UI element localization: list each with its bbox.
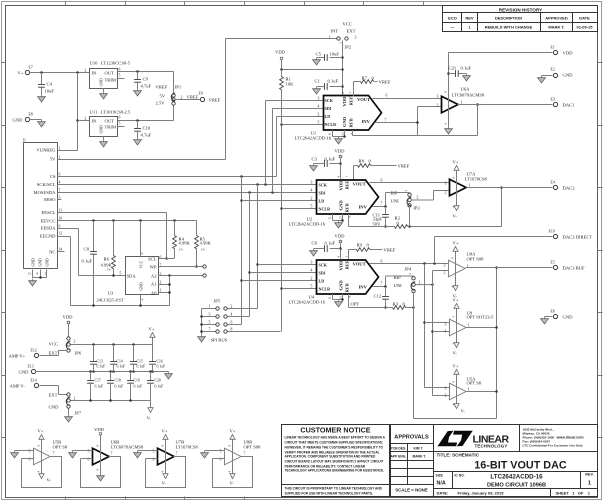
wire V- rail [71, 399, 151, 402]
svg-text:3: 3 [437, 95, 439, 99]
wire EESCL net [58, 213, 168, 260]
wire bus CS [58, 176, 277, 178]
wire U5A output [466, 390, 498, 393]
svg-text:2: 2 [181, 96, 183, 100]
ground below C10 [134, 138, 142, 145]
svg-text:1: 1 [461, 101, 463, 105]
svg-text:V+: V+ [18, 71, 24, 76]
wire U2 GND pins to ground [333, 214, 344, 222]
svg-text:OPT S8: OPT S8 [467, 381, 482, 386]
svg-text:5V: 5V [50, 157, 56, 162]
terminal E14 AMP V- [10, 379, 39, 389]
svg-text:3: 3 [59, 195, 61, 199]
svg-text:LTC2642ACDD-16: LTC2642ACDD-16 [289, 300, 326, 305]
dac U4 LTC2642ACDD-16 [289, 256, 379, 305]
ground at E6 [541, 317, 549, 324]
svg-text:NCLR: NCLR [319, 287, 331, 292]
svg-text:4.7uF: 4.7uF [141, 84, 152, 89]
svg-text:A2: A2 [151, 274, 157, 279]
jumper JP3 [391, 190, 421, 211]
frame tick marks left [2, 63, 6, 438]
ground at U6B input [69, 451, 77, 458]
wire U3 GND stub [139, 295, 143, 307]
ground at E8 [38, 120, 46, 127]
ground at C21 [463, 74, 471, 81]
op-amp U5A OPT S8 [445, 377, 482, 400]
svg-text:GND: GND [100, 125, 104, 133]
svg-text:OPT S8: OPT S8 [53, 445, 68, 450]
ground at C1 [313, 87, 321, 94]
svg-text:SIZE: SIZE [436, 474, 444, 478]
svg-text:12: 12 [341, 132, 345, 136]
wire JP3 pin2 to U7A inv input [411, 191, 449, 201]
svg-text:J1: J1 [23, 139, 26, 143]
svg-text:SUPPLIED FOR USE WITH LINEAR T: SUPPLIED FOR USE WITH LINEAR TECHNOLOGY … [285, 492, 374, 496]
svg-text:INV: INV [359, 205, 368, 210]
svg-text:1: 1 [468, 388, 470, 392]
revision history table [443, 6, 598, 32]
wire inverting column [431, 271, 449, 396]
op-amp U8A OPT S08 [444, 252, 485, 277]
wire U3 SCL stub [159, 258, 175, 260]
svg-text:0.1uF: 0.1uF [134, 385, 143, 389]
wire riser NCLR net to JP5 pin8 [280, 123, 323, 331]
op-amp U8B OPT S08 [205, 429, 262, 488]
svg-text:NC: NC [49, 250, 55, 255]
wire JP5 pin8 MISO [228, 331, 281, 333]
svg-text:VDD: VDD [339, 260, 344, 271]
svg-text:2: 2 [74, 340, 76, 344]
svg-text:14: 14 [59, 248, 63, 252]
ground below U10 [100, 92, 108, 99]
wire U11 OUT [118, 120, 174, 122]
supply V- below U9 [452, 323, 460, 356]
wire bus MOSI/SDA [58, 192, 317, 194]
svg-text:VOUT: VOUT [353, 182, 366, 187]
wire EEGND net [58, 237, 170, 306]
resistor R1 10K [280, 68, 294, 124]
svg-text:SCK: SCK [319, 263, 328, 268]
terminal E6 GND [545, 310, 574, 320]
svg-text:CUSTOMER NOTICE: CUSTOMER NOTICE [300, 426, 370, 435]
svg-text:VOUT: VOUT [353, 262, 366, 267]
svg-text:C14: C14 [117, 360, 123, 364]
svg-text:10: 10 [59, 217, 63, 221]
svg-text:C4: C4 [47, 82, 53, 87]
wire JP2 pin2 down VDD riser [341, 41, 344, 97]
wire U2 RFB feedback line + resistor R2 [349, 214, 502, 228]
node junction C4 tap [40, 71, 43, 74]
svg-text:OUT: OUT [105, 71, 115, 76]
capacitor C5 [316, 52, 343, 61]
svg-text:1: 1 [588, 481, 591, 487]
svg-text:EESDA: EESDA [41, 226, 56, 231]
frame tick marks right [598, 63, 603, 438]
svg-text:V-: V- [461, 409, 466, 414]
svg-text:VREF: VREF [156, 85, 168, 90]
svg-text:APPROVALS: APPROVALS [394, 435, 429, 441]
svg-text:EEVCC: EEVCC [40, 219, 55, 224]
wire JP4 pin2 to inverting column [415, 281, 434, 286]
wire U2 REF riser + resistor R8 [354, 159, 397, 181]
ground at U7B input [134, 451, 142, 458]
dac U2 LTC2642ACDD-16 [289, 176, 379, 227]
svg-text:5: 5 [318, 120, 320, 124]
Linear Technology logo [438, 431, 473, 447]
svg-text:24LC025-I/ST: 24LC025-I/ST [97, 298, 124, 303]
supply V- below U8A [451, 265, 459, 299]
svg-text:DEMO CIRCUIT 1096B: DEMO CIRCUIT 1096B [487, 483, 546, 489]
svg-text:2: 2 [74, 397, 76, 401]
svg-text:CIRCUIT BOARD LAYOUT MAY SIGNI: CIRCUIT BOARD LAYOUT MAY SIGNIFICANTLY A… [285, 460, 384, 464]
wire riser SCK to U4 SCK and JP5 pin2 [228, 183, 317, 308]
svg-text:TRIM: TRIM [105, 125, 116, 130]
svg-text:16-BIT VOUT DAC: 16-BIT VOUT DAC [474, 460, 567, 472]
ground below U11 [100, 140, 108, 147]
wire 5V net to VCC riser [58, 39, 337, 160]
svg-text:7: 7 [209, 328, 211, 332]
wire U4 RFB OPT line + resistor R3 [349, 294, 415, 309]
wire U3 WP line to pad [159, 266, 203, 268]
node junction C10 [136, 119, 139, 122]
svg-text:1: 1 [468, 324, 470, 328]
svg-text:C13: C13 [97, 360, 103, 364]
svg-text:R6: R6 [104, 257, 110, 262]
resistor R5 4.99K [195, 221, 212, 268]
capacitor C16 [149, 345, 165, 372]
svg-text:SDI: SDI [325, 106, 332, 111]
svg-text:REV.: REV. [585, 473, 594, 477]
pad A2 [203, 274, 206, 277]
ground at U8B input [201, 451, 209, 458]
ground below U4 [335, 300, 343, 307]
svg-text:—: — [451, 25, 455, 30]
capacitor C3 [312, 157, 341, 167]
svg-text:IN: IN [92, 119, 98, 124]
wire MISO stub [58, 199, 62, 201]
wire 2.5V riser to JP1 pin3 [173, 105, 175, 121]
wire VDD rail [282, 69, 343, 71]
svg-text:E5: E5 [551, 261, 555, 265]
svg-text:TECHNOLOGY APPLICATIONS ENGINE: TECHNOLOGY APPLICATIONS ENGINEERING FOR … [285, 469, 385, 473]
svg-text:VCC: VCC [49, 342, 58, 347]
svg-text:TRIM: TRIM [105, 78, 116, 83]
wire U4 INV [373, 282, 386, 287]
capacitor C9 [134, 72, 151, 89]
ground below U6A [445, 127, 453, 134]
svg-text:V-: V- [162, 481, 167, 486]
svg-text:V+: V+ [453, 298, 459, 303]
svg-text:LTC6078ACMS8: LTC6078ACMS8 [452, 93, 485, 98]
svg-text:2: 2 [85, 69, 87, 73]
svg-text:VDD: VDD [63, 315, 74, 320]
svg-text:RFB: RFB [349, 118, 354, 127]
svg-text:VDD: VDD [335, 149, 346, 154]
svg-text:4: 4 [318, 104, 320, 108]
svg-text:AMP V-: AMP V- [10, 384, 26, 389]
svg-text:C20: C20 [155, 379, 161, 383]
supply V- below U7A [452, 184, 460, 219]
svg-text:2: 2 [311, 276, 313, 280]
supply V+ above U5A [452, 364, 460, 396]
svg-text:C3: C3 [312, 157, 318, 162]
svg-text:2: 2 [160, 281, 162, 285]
svg-text:V+: V+ [230, 429, 236, 434]
terminal E9 VREF [199, 92, 221, 103]
wire E14 to JP7 pin1 [40, 386, 68, 395]
svg-text:V+: V+ [38, 429, 44, 434]
svg-text:1: 1 [160, 289, 162, 293]
svg-text:DATE: DATE [579, 16, 590, 21]
node junction U11 IN [76, 119, 79, 122]
svg-text:OPT: OPT [351, 302, 360, 307]
op-amp U6A LT6078ACMS8 [437, 87, 485, 125]
svg-text:INV: INV [362, 119, 371, 124]
svg-text:E7: E7 [29, 66, 33, 70]
supply symbol VDD for U2 [335, 149, 346, 179]
svg-text:VDD: VDD [335, 234, 346, 239]
wire U2 NCLR feed [280, 207, 316, 210]
svg-text:HOWEVER, IT REMAINS THE CUSTOM: HOWEVER, IT REMAINS THE CUSTOMER'S RESPO… [285, 446, 384, 450]
svg-text:V+: V+ [453, 160, 459, 165]
jumper JP1 [156, 85, 182, 106]
svg-text:DAC1: DAC1 [563, 103, 576, 108]
jumper JP4 [394, 267, 416, 293]
svg-text:SDA: SDA [127, 274, 137, 279]
svg-text:7: 7 [381, 282, 383, 286]
svg-text:N/A: N/A [437, 481, 446, 487]
svg-text:10K: 10K [286, 82, 295, 87]
svg-text:INT: INT [331, 29, 339, 34]
svg-text:10uF: 10uF [45, 89, 55, 94]
svg-text:OPT S08: OPT S08 [244, 445, 262, 450]
svg-text:0.1uF: 0.1uF [155, 385, 164, 389]
svg-text:EXT: EXT [49, 393, 58, 398]
capacitor C15 [130, 345, 145, 372]
wire JP3 pin3 to INV [384, 193, 409, 208]
svg-text:VDD: VDD [275, 50, 286, 55]
svg-text:C1: C1 [315, 79, 321, 84]
svg-text:LD: LD [319, 279, 325, 284]
svg-text:11: 11 [328, 296, 332, 300]
svg-text:VDD: VDD [94, 427, 105, 432]
svg-text:JP6: JP6 [75, 351, 82, 356]
svg-text:SCK/SCL: SCK/SCL [37, 182, 56, 187]
svg-text:GND: GND [339, 280, 344, 291]
svg-text:LTC2642ACDD-16: LTC2642ACDD-16 [490, 474, 543, 481]
wire U3 A2 line to pad [159, 275, 203, 277]
wire riser CS to U2/U4 LD and JP5 pin6 [228, 175, 317, 324]
node junction C9 [136, 70, 139, 73]
svg-text:VDD: VDD [342, 96, 347, 107]
svg-text:E8: E8 [29, 113, 33, 117]
wire VOUT riser to buffer + inputs [423, 262, 449, 387]
svg-text:UNI: UNI [391, 199, 400, 204]
svg-text:OPT SOT23-5: OPT SOT23-5 [467, 315, 495, 320]
svg-text:SCALE = NONE: SCALE = NONE [395, 488, 428, 493]
ground below C4 [38, 95, 46, 102]
svg-text:EXT: EXT [347, 29, 356, 34]
svg-text:01-09-15: 01-09-15 [576, 25, 593, 30]
wire GND rail [36, 370, 169, 373]
svg-text:1%: 1% [201, 248, 206, 252]
wire JP3 pin1 stub [409, 207, 411, 227]
svg-text:APPLICATION. COMPONENT SUBSTI: APPLICATION. COMPONENT SUBSTITUTION AND … [285, 455, 377, 459]
svg-text:C19: C19 [134, 379, 140, 383]
approvals box [391, 425, 434, 497]
svg-text:E3: E3 [551, 98, 555, 102]
svg-text:E12: E12 [31, 349, 37, 353]
svg-text:3: 3 [445, 387, 447, 391]
svg-text:4: 4 [231, 313, 233, 317]
ground below U6B [97, 474, 105, 481]
wire JP4 pin3 to INV [384, 276, 413, 288]
supply V+ above U9 [452, 298, 460, 332]
supply symbol VDD for U4 [335, 234, 346, 259]
svg-text:VREF: VREF [379, 80, 391, 85]
svg-text:R3: R3 [393, 302, 399, 307]
capacitor C20 [147, 372, 163, 401]
capacitor C10 [134, 121, 151, 138]
svg-text:3: 3 [311, 180, 313, 184]
svg-text:EXT: EXT [49, 351, 58, 356]
svg-text:JP4: JP4 [405, 267, 412, 272]
svg-text:10uF: 10uF [330, 52, 340, 57]
svg-text:0.1uF: 0.1uF [325, 241, 336, 246]
svg-text:VDD: VDD [339, 180, 344, 191]
wire E8 to ground [30, 119, 42, 121]
wire riser U1 SDI [271, 109, 323, 194]
terminal E2 GND [542, 68, 574, 78]
svg-text:LTC Confidential-For Customer: LTC Confidential-For Customer Use Only [523, 444, 583, 448]
regulator U10 LT1236CCS8-5 [85, 61, 131, 92]
svg-text:JP3: JP3 [413, 206, 420, 211]
eeprom U3 24LC025 [97, 256, 162, 303]
svg-text:DATE:: DATE: [437, 491, 449, 496]
svg-text:ECO: ECO [448, 16, 457, 21]
capacitor C14 [110, 345, 125, 372]
svg-text:E4: E4 [551, 181, 555, 185]
svg-text:REF: REF [345, 260, 350, 269]
svg-text:V-: V- [453, 351, 458, 356]
svg-text:APPROVED: APPROVED [545, 16, 568, 21]
ground below C9 [134, 89, 142, 96]
terminal E12 AMP V+ [9, 349, 39, 359]
wire EESDA net [58, 229, 126, 276]
svg-text:A0: A0 [151, 291, 157, 296]
svg-text:C18: C18 [115, 379, 121, 383]
svg-text:A1: A1 [151, 282, 157, 287]
svg-text:9: 9 [59, 225, 61, 229]
svg-text:REV: REV [465, 16, 474, 21]
node junction V+ riser [76, 71, 79, 74]
op-amp U5B OPT S8 [15, 429, 68, 488]
svg-text:0.1uF: 0.1uF [115, 385, 124, 389]
wire U4 VOUT to U8A [370, 260, 449, 264]
svg-text:1: 1 [469, 184, 471, 188]
svg-text:MISO: MISO [44, 197, 56, 202]
ground at GND rail end [165, 372, 173, 379]
op-amp U9 OPT SOT23-5 [445, 311, 495, 336]
svg-text:V+: V+ [453, 241, 459, 246]
svg-text:VOUT: VOUT [357, 97, 370, 102]
svg-text:7: 7 [111, 452, 113, 456]
svg-text:5: 5 [120, 272, 122, 276]
terminal E4 DAC2 [551, 181, 576, 191]
svg-text:E10: E10 [549, 230, 555, 234]
svg-text:AMP V+: AMP V+ [9, 354, 26, 359]
wire riser U1 LD [277, 117, 324, 177]
svg-text:13: 13 [28, 272, 32, 276]
svg-text:7: 7 [53, 452, 55, 456]
connector J1 [23, 139, 63, 276]
ground at C3 [310, 164, 318, 171]
svg-text:U3: U3 [108, 291, 114, 296]
svg-text:4: 4 [59, 180, 61, 184]
capacitor C4 [38, 73, 54, 95]
wire U6A V+ stem to E1 [447, 53, 552, 127]
svg-text:E6: E6 [551, 310, 555, 314]
svg-text:11: 11 [59, 208, 63, 212]
svg-text:EESCL: EESCL [41, 210, 55, 215]
svg-text:3: 3 [318, 96, 320, 100]
svg-text:6: 6 [119, 116, 121, 120]
wire VUNREG [58, 150, 78, 152]
terminal E13 GND [19, 365, 36, 375]
svg-text:SCK: SCK [319, 183, 328, 188]
svg-text:DESCRIPTION: DESCRIPTION [495, 16, 522, 21]
svg-text:RFB: RFB [345, 283, 350, 292]
wire U1 VOUT to U6A [373, 94, 442, 99]
svg-text:0.1uF: 0.1uF [157, 365, 166, 369]
wire JP4 pin1 feedback riser [414, 266, 498, 418]
svg-text:5V: 5V [160, 94, 166, 99]
ground at C6 [310, 249, 318, 256]
svg-text:1: 1 [329, 36, 331, 40]
net label VREF at R9 [384, 248, 396, 253]
svg-text:NCLR: NCLR [319, 207, 331, 212]
svg-text:OUT: OUT [105, 119, 115, 124]
svg-text:R7: R7 [362, 76, 368, 81]
svg-text:C9: C9 [143, 77, 149, 82]
jumper JP7 [49, 393, 82, 416]
svg-text:5: 5 [311, 284, 313, 288]
svg-text:LTC2642ACDD-16: LTC2642ACDD-16 [289, 222, 326, 227]
svg-text:4: 4 [311, 188, 313, 192]
svg-text:REVISION HISTORY: REVISION HISTORY [499, 8, 542, 13]
wire E12 to JP6 pin3 [40, 351, 68, 356]
wire U4 REF riser + resistor R9 [349, 243, 383, 261]
resistor R4 4.99K [173, 219, 191, 258]
svg-text:PCB DES.: PCB DES. [391, 447, 407, 451]
svg-text:GND: GND [140, 282, 144, 290]
frame tick marks bottom [66, 497, 245, 500]
svg-text:JP7: JP7 [75, 411, 82, 416]
wire U9 output [466, 326, 498, 329]
svg-text:7: 7 [59, 188, 61, 192]
svg-text:Friday, January 09, 2015: Friday, January 09, 2015 [458, 491, 505, 496]
svg-text:6: 6 [119, 68, 121, 72]
svg-text:4.99K: 4.99K [200, 241, 212, 246]
terminal E1 VDD [551, 46, 574, 56]
svg-text:6: 6 [386, 94, 388, 98]
svg-text:MARK T.: MARK T. [548, 25, 564, 30]
svg-text:SPI BUS: SPI BUS [211, 338, 228, 343]
ground below JP5 [198, 335, 206, 342]
svg-text:VCC: VCC [343, 22, 352, 27]
svg-text:6: 6 [381, 260, 383, 264]
svg-text:V-: V- [47, 478, 52, 483]
